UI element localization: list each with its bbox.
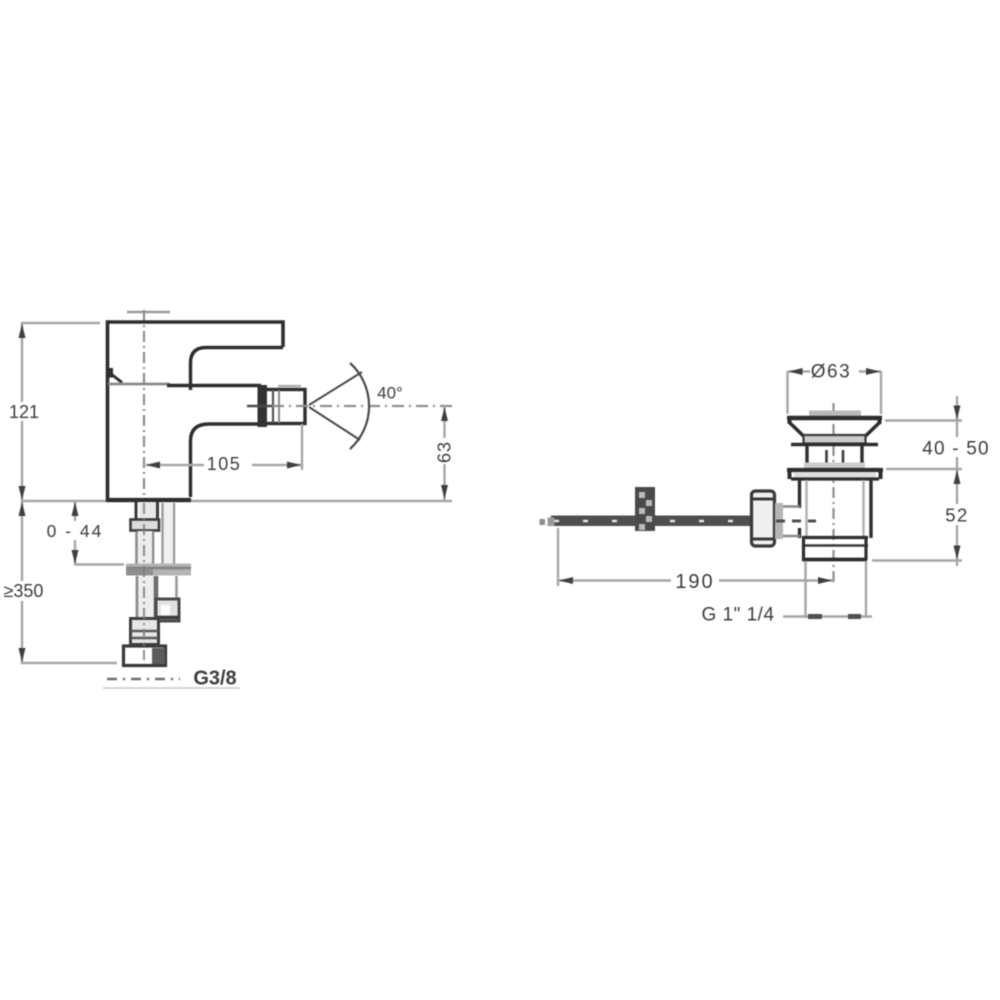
aerator inner line [272,390,274,423]
drain body inner lines [805,480,807,537]
knurled nut [752,491,784,546]
washer under deck [126,564,191,576]
label dia63 [810,361,859,383]
faucet vertical centerline [143,310,145,664]
handle underside [191,348,284,391]
svg-text:52: 52 [945,505,969,526]
hidden rod dashes [776,520,816,523]
trumpet sides [790,423,804,436]
base bottom edge [106,498,191,502]
spout horizontal centerline [272,405,452,407]
tail sides [802,537,805,560]
body shoulder step [106,368,113,378]
hose left [137,576,155,618]
label 52 [941,504,973,526]
svg-text:Ø63: Ø63 [811,362,851,383]
spout centerline dark segment [247,405,272,408]
label 190 [671,570,719,593]
label 105 [204,454,252,474]
dim 63 arrow top [441,407,448,421]
shank below body [136,502,158,519]
tail bottom [802,558,867,562]
dim 190 line [558,579,833,581]
top rim [787,416,882,420]
dim 190 tick left [559,577,573,584]
dim 63 arrow bottom [441,485,448,499]
dim 105 arrow right [287,462,301,469]
dim 121 extension top [21,322,100,324]
stem band [804,463,865,469]
rod joint block [635,487,655,531]
arrow down to 420 [954,406,961,420]
svg-text:≥350: ≥350 [4,581,44,601]
hose right [157,576,177,599]
dim 40-50 / 52 extensions [885,419,962,421]
svg-text:121: 121 [9,402,39,422]
spray fan lower ray [309,407,360,440]
faucet body outline [108,322,284,500]
dim 0-44 arrow bottom [72,550,79,564]
drain body sides [798,480,801,508]
svg-text:63: 63 [435,441,455,463]
aerator left cap [258,385,268,427]
dim 0-44 line [74,501,76,565]
dim >=350 arrow bottom [19,648,26,662]
centerline overlay below deck [143,503,145,660]
aerator block [262,390,305,424]
deck line [21,500,452,503]
dim >=350 line [21,501,23,663]
svg-text:0 - 44: 0 - 44 [47,521,104,541]
lower rim bottom lip [791,477,879,480]
dim 121 arrow top [19,324,26,338]
svg-text:40 - 50: 40 - 50 [922,439,990,460]
mid band [804,435,866,444]
dim G1 1/4 extensions [804,561,806,618]
drain vertical centerline [832,403,834,586]
tail top [802,536,868,539]
arrow down to 560 [954,546,961,560]
dim 190 tick right [818,577,832,584]
label 121 [6,402,42,422]
svg-text:105: 105 [207,454,242,474]
lower rim [787,468,883,472]
hose left nut [131,619,159,645]
hose right nut [156,599,179,621]
centerline tick top [127,311,170,313]
label 63 rotated [434,438,455,464]
dim 105 line [146,464,302,466]
dim 0-44 extension bottom [75,563,124,565]
pop-up rod [540,516,753,527]
dim 121 arrow bottom [19,486,26,500]
supply tube right [163,503,175,564]
stem sides [805,446,808,463]
spray fan upper ray [309,372,362,405]
svg-text:190: 190 [675,571,714,593]
dim 0-44 arrow top [72,502,79,516]
shank nut [131,520,160,531]
spout top edge [167,384,261,388]
dim dia63 arrow right [866,368,880,375]
dim 40-50/52 vertical line [956,396,958,566]
spray fan arc [350,363,369,449]
dim dia63 line [788,370,881,372]
stem inner [825,450,828,468]
dim dia63 extension left [786,371,788,414]
label 40 - 50 [918,437,996,460]
plug cap [809,411,861,417]
dim >=350 extension bottom [21,662,117,664]
supply tube left [137,531,154,564]
dim 63 line [443,406,445,500]
dim G1 1/4 line [783,615,872,617]
arrow up to 469 [954,470,961,484]
dim dia63 extension right [880,371,882,414]
label >=350 [0,581,48,601]
dim G1 1/4 arrowmarks [808,614,822,619]
spout top edge gray part [108,383,170,386]
G3/8 connector [124,646,166,666]
svg-text:G 1" 1/4: G 1" 1/4 [701,605,774,626]
spout underside [191,424,261,497]
boss on drain body [783,507,800,537]
dash-dot under connector [103,679,240,688]
svg-text:G3/8: G3/8 [193,668,236,690]
dim 105 extension right [301,424,303,470]
dim 121 line [21,323,23,501]
dim 105 arrow left [146,462,160,469]
svg-text:40°: 40° [377,384,403,403]
dim >=350 arrow top [19,502,26,516]
dim dia63 arrow left [789,368,803,375]
mid lip [791,443,878,447]
dim 190 extension left [557,528,559,586]
label 0 - 44 [44,521,106,541]
